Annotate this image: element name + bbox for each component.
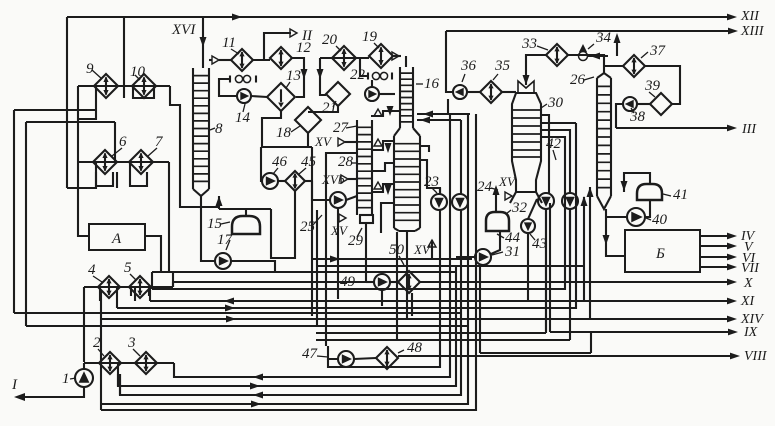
- svg-text:II: II: [301, 28, 313, 44]
- pump 38: [623, 97, 637, 111]
- line IV: [700, 229, 756, 244]
- wire 4-5 line: [84, 286, 173, 288]
- wire 49 suction: [366, 281, 374, 283]
- label 33: [521, 36, 537, 52]
- wire pump36 drop: [447, 99, 449, 114]
- wire 20 left drop: [320, 58, 326, 95]
- svg-text:40: 40: [652, 212, 668, 228]
- svg-text:37: 37: [649, 43, 667, 59]
- arrow 26 bottoms: [603, 235, 610, 245]
- column 28: [357, 120, 372, 215]
- arrow into 30 top: [523, 75, 530, 85]
- wire pocket2 long: [100, 290, 102, 410]
- label 49: [340, 274, 356, 290]
- pump 22: [365, 87, 379, 101]
- svg-text:XVI: XVI: [171, 22, 196, 38]
- wire 36 left: [446, 31, 453, 92]
- wire pocket5 drop: [149, 287, 151, 301]
- label 43: [532, 236, 547, 252]
- wire pump30a up: [541, 115, 549, 193]
- label 22: [350, 67, 366, 83]
- column 28 bottom box: [360, 215, 373, 223]
- wire 2 pocket b: [117, 363, 119, 386]
- heat exchanger 10: [132, 74, 156, 98]
- leader 27: [346, 126, 357, 128]
- wire fan 3: [118, 266, 456, 386]
- svg-text:18: 18: [276, 125, 292, 141]
- wire cooler22 left riser: [360, 58, 368, 76]
- arrow fan5: [251, 401, 261, 408]
- mixer 21: [326, 82, 350, 106]
- pump 1: [75, 369, 93, 387]
- wire col16 bottoms: [406, 231, 408, 257]
- label 24: [477, 179, 493, 195]
- label 46: [272, 154, 288, 170]
- wire XV lower stub: [431, 240, 433, 259]
- wire x584 riser: [583, 197, 585, 301]
- marker XV at 30: [498, 174, 517, 189]
- svg-text:15: 15: [207, 216, 223, 232]
- flow arrow 20 drop: [317, 69, 324, 79]
- block A: [89, 224, 145, 250]
- wire col8 bottoms: [201, 196, 215, 261]
- wire left bus b stub: [114, 122, 116, 162]
- column 16 bottom taper: [394, 228, 420, 231]
- wire bus 266: [317, 265, 584, 267]
- heat exchanger 35: [480, 81, 502, 103]
- wire 43 drop: [527, 233, 529, 301]
- air cooler 22: [368, 72, 392, 79]
- pump 30a: [538, 193, 554, 209]
- svg-text:XV: XV: [330, 223, 349, 238]
- wire 31 to 32: [491, 231, 500, 254]
- heat exchanger 33: [546, 44, 568, 66]
- wire draw 16d: [371, 184, 394, 192]
- svg-text:III: III: [741, 122, 757, 137]
- wire 45 bottom loop: [271, 191, 295, 258]
- wire 5 pocket b: [148, 287, 150, 296]
- svg-text:38: 38: [629, 109, 646, 125]
- wire pump49 drop: [381, 290, 383, 306]
- arrow col16 feed a: [423, 111, 433, 118]
- wire 9-10 main line: [78, 85, 170, 87]
- label 39: [644, 78, 661, 94]
- label 27: [333, 120, 350, 136]
- svg-text:16: 16: [424, 76, 440, 92]
- wire 41 loop: [624, 173, 650, 192]
- arrow 34 riser: [614, 33, 621, 43]
- wire col16 left stub: [381, 203, 394, 233]
- flow arrow 15 riser: [216, 196, 223, 206]
- wire 4-5 right drop: [172, 272, 174, 287]
- svg-text:13: 13: [286, 68, 301, 84]
- wire 11-12: [253, 59, 270, 61]
- leader 33: [537, 46, 548, 50]
- wire pump1 riser: [83, 363, 85, 370]
- wire left vert a: [13, 110, 15, 313]
- leader 8: [210, 128, 215, 130]
- svg-text:39: 39: [644, 78, 661, 94]
- leader 28: [351, 162, 357, 164]
- valve 34: [579, 44, 588, 61]
- wire 6-7 right drop: [168, 162, 170, 272]
- leader 39: [649, 92, 655, 97]
- wire 10 right drop: [170, 86, 219, 207]
- wire 38 to III: [616, 104, 623, 128]
- wire 20-19 line: [320, 57, 369, 59]
- wire 35 to 30: [502, 91, 516, 93]
- wire 45 box right: [311, 147, 313, 316]
- svg-text:A: A: [111, 231, 122, 247]
- marker XV mid: [330, 214, 349, 238]
- wire 36-35: [467, 91, 480, 93]
- wire col29 bottoms: [365, 223, 367, 282]
- marker XV upper: [314, 134, 345, 149]
- svg-text:I: I: [11, 377, 18, 393]
- label 35: [494, 58, 511, 74]
- svg-text:XV: XV: [498, 174, 517, 189]
- leader 44: [497, 234, 504, 238]
- arrow bus XI west: [224, 298, 234, 305]
- heat exchanger 20: [332, 46, 356, 70]
- label 1: [62, 371, 70, 387]
- input arrow I: [14, 393, 25, 401]
- label 47: [302, 346, 319, 362]
- wire pump30b drop: [569, 209, 571, 340]
- label 42: [546, 136, 562, 152]
- wire 49-50: [390, 281, 398, 283]
- pump 36: [453, 85, 467, 99]
- leader 41: [663, 194, 671, 196]
- leader 46: [273, 168, 278, 174]
- svg-text:34: 34: [595, 30, 612, 46]
- wire col16 top riser: [405, 56, 407, 67]
- pump 49: [374, 274, 390, 290]
- svg-text:26: 26: [570, 72, 586, 88]
- label 17: [217, 232, 234, 248]
- wire 45 box left: [261, 147, 262, 181]
- wire fan 5: [101, 114, 468, 404]
- arrow into 34: [590, 53, 600, 60]
- column 8: [193, 68, 209, 196]
- svg-text:IX: IX: [743, 325, 758, 340]
- wire bus 289: [152, 137, 565, 289]
- svg-text:VII: VII: [741, 261, 760, 276]
- svg-text:35: 35: [494, 58, 511, 74]
- mixer 18: [295, 107, 321, 133]
- svg-text:X: X: [743, 276, 753, 291]
- leader 11: [231, 49, 239, 54]
- wire pump30a drop: [545, 209, 547, 333]
- wire 30 skirt to 43: [528, 199, 537, 219]
- heat exchanger 12: [270, 47, 292, 69]
- svg-text:6: 6: [119, 134, 127, 150]
- marker XVb: [321, 172, 348, 187]
- heat exchanger 3: [135, 352, 157, 374]
- label 21: [322, 100, 337, 116]
- line X: [420, 276, 753, 291]
- leader 38: [631, 108, 634, 113]
- label 31: [504, 244, 520, 260]
- wire 12 right drop: [292, 58, 304, 97]
- label 7: [155, 134, 164, 150]
- wire XV 30 line: [495, 193, 497, 212]
- wire 31 left: [456, 256, 475, 258]
- column 16 neck: [400, 67, 413, 128]
- wire cooler left drop: [219, 79, 237, 96]
- arrow bus 259: [330, 256, 340, 263]
- leader 43: [530, 234, 535, 240]
- pump 40: [627, 208, 645, 226]
- svg-text:31: 31: [504, 244, 520, 260]
- wire X corner: [172, 282, 174, 287]
- wire 25 suction: [346, 196, 357, 200]
- label 5: [124, 260, 132, 276]
- heat exchanger 2: [99, 352, 121, 374]
- leader 10: [135, 75, 140, 80]
- leader 7: [148, 148, 157, 156]
- svg-text:28: 28: [338, 154, 354, 170]
- wire 22 to col16: [379, 93, 395, 95]
- wire 26 bottoms: [606, 209, 625, 256]
- svg-text:24: 24: [477, 179, 493, 195]
- wire XVb into 28: [348, 178, 357, 180]
- wire 25 left: [312, 181, 330, 200]
- pump 24: [452, 194, 468, 210]
- label 48: [407, 340, 423, 356]
- wire 7 pocket: [130, 162, 147, 186]
- wire col16 feed a: [417, 113, 470, 115]
- wire left frame outer: [66, 17, 68, 188]
- wire 33 left: [526, 55, 546, 85]
- leader 4: [93, 276, 102, 282]
- svg-text:XI: XI: [740, 294, 756, 309]
- svg-text:XV: XV: [314, 134, 333, 149]
- wire bus 340: [316, 339, 570, 341]
- pump 47: [338, 351, 354, 367]
- leader 45: [299, 168, 306, 174]
- wire 9 bottom stub: [116, 172, 118, 188]
- leader 35: [493, 74, 498, 80]
- label 20: [322, 32, 338, 48]
- line XII with arrow: [67, 9, 760, 24]
- flow arrow 12 drop: [301, 69, 308, 79]
- leader 3: [133, 349, 140, 356]
- svg-text:46: 46: [272, 154, 288, 170]
- label 44: [505, 230, 521, 246]
- heat exchanger 9: [94, 74, 118, 98]
- pump 23: [431, 194, 447, 210]
- label 29: [348, 233, 364, 249]
- steam tri c: [374, 182, 382, 189]
- label II: [301, 28, 313, 44]
- label 15: [207, 216, 223, 232]
- wire fan 6: [101, 114, 476, 410]
- arrow XV 30: [493, 185, 500, 195]
- leader 34: [588, 44, 594, 49]
- label 37: [649, 43, 667, 59]
- arrow draw16d: [385, 185, 392, 195]
- wire 40 left: [606, 216, 627, 218]
- line VIII with arrow: [398, 349, 768, 364]
- svg-text:17: 17: [217, 232, 234, 248]
- wire mid verts b: [326, 153, 357, 346]
- wire 2-3 line: [84, 362, 174, 364]
- wire 15 top feed: [219, 208, 271, 210]
- wire pump31 drop: [479, 265, 481, 353]
- wire fan 4: [120, 210, 461, 395]
- label 45: [301, 154, 317, 170]
- heat exchanger 6: [93, 150, 117, 174]
- svg-text:Б: Б: [655, 246, 665, 262]
- wire 39 to 38: [637, 103, 650, 105]
- svg-text:XIII: XIII: [740, 24, 765, 39]
- wire 30 skirt drop: [549, 203, 551, 332]
- leader 6: [112, 148, 122, 156]
- label 14: [235, 110, 251, 126]
- heat exchanger 5: [129, 276, 151, 298]
- wire II riser: [264, 33, 291, 60]
- wire mid verts e: [406, 257, 408, 318]
- wire 15 riser: [218, 196, 220, 209]
- wire left frame second: [123, 17, 125, 98]
- leader 31: [492, 252, 503, 255]
- arrow fan3: [250, 383, 260, 390]
- furnace 15: [232, 216, 260, 234]
- svg-text:11: 11: [222, 35, 236, 51]
- flow arrow XVI down: [200, 37, 207, 47]
- svg-text:23: 23: [424, 174, 439, 190]
- wire col8 line to 11: [219, 59, 231, 61]
- leader 20: [336, 46, 341, 51]
- svg-text:30: 30: [547, 95, 564, 111]
- wire 18 down to 45 box: [307, 133, 309, 147]
- line XIV: [101, 312, 764, 327]
- wire bus 316: [14, 312, 461, 314]
- heat exchanger 19: [369, 44, 393, 68]
- label 25: [300, 219, 316, 235]
- label 4: [88, 262, 96, 278]
- svg-text:32: 32: [511, 200, 528, 216]
- svg-text:45: 45: [301, 154, 317, 170]
- wire bus 272: [152, 271, 455, 273]
- wire fan 2: [174, 114, 450, 377]
- label 34: [595, 30, 612, 46]
- wire 34 to riser: [588, 55, 608, 57]
- wire 37 loop: [645, 66, 680, 104]
- wire 3 pocket: [119, 374, 121, 395]
- leader 5: [130, 274, 136, 280]
- svg-text:4: 4: [88, 262, 96, 278]
- marker XV lower: [413, 240, 436, 257]
- leader 48: [398, 350, 404, 353]
- wire pump23 riser: [439, 188, 441, 194]
- air cooler after 12: [230, 75, 256, 82]
- vessel 30: [510, 81, 542, 203]
- wire 41 to 40: [645, 200, 650, 217]
- heat exchanger 11: [231, 49, 253, 71]
- label 16: [424, 76, 440, 92]
- label 30: [547, 95, 564, 111]
- label 50: [389, 242, 405, 258]
- line IX: [550, 325, 758, 340]
- leader 19: [374, 43, 379, 48]
- heat exchanger 48: [376, 347, 398, 369]
- label 9: [86, 61, 94, 77]
- wire 17 out: [231, 261, 275, 272]
- leader 22: [362, 75, 366, 76]
- label 36: [460, 58, 477, 74]
- wire 45 box top: [261, 146, 312, 148]
- wire mid verts c: [337, 208, 339, 299]
- wire bus 325: [26, 325, 468, 327]
- valve marker col8 draw: [212, 56, 219, 64]
- wire fan 1: [328, 210, 440, 367]
- wire hx50 drop: [411, 293, 413, 316]
- steam tri b: [374, 139, 382, 146]
- wire bus 259: [312, 258, 472, 260]
- leader 47: [317, 356, 328, 357]
- line VI: [700, 251, 757, 266]
- label 13: [286, 68, 301, 84]
- wire draw 16c: [371, 163, 394, 171]
- wire A right: [145, 236, 161, 272]
- leader 32: [506, 210, 511, 214]
- wire pump30a down: [545, 209, 547, 331]
- leader 37: [641, 52, 648, 58]
- wire col16 feed b: [417, 119, 461, 121]
- wire 6 pocket: [96, 162, 113, 186]
- wire pocket5 drop b: [134, 287, 136, 301]
- leader 2: [98, 349, 104, 356]
- wire 19 to col16: [393, 55, 401, 57]
- arrow x584: [581, 196, 588, 206]
- wire dome15 stub: [245, 209, 247, 216]
- wire 4 pocket: [99, 287, 101, 301]
- wire IX riser: [590, 332, 592, 353]
- heat exchanger 50: [398, 271, 420, 293]
- wire 6-7 main line: [78, 161, 169, 163]
- wire I inlet: [20, 387, 84, 397]
- wire col8 draw to 11: [209, 59, 212, 61]
- furnace 32: [486, 212, 509, 231]
- open arrow II: [290, 29, 297, 37]
- leader 13: [286, 82, 290, 88]
- label I: [11, 377, 18, 393]
- label 3: [127, 335, 136, 351]
- svg-text:1: 1: [62, 371, 70, 387]
- leader 30: [541, 104, 547, 108]
- leader 29: [357, 228, 362, 237]
- leader 36: [462, 74, 465, 82]
- leader 15: [221, 222, 230, 224]
- wire 16 right draw b: [420, 160, 440, 194]
- wire 46-45: [278, 180, 285, 182]
- arrow bus XIV: [226, 316, 236, 323]
- valve marker 19 out: [392, 52, 399, 60]
- column 16 body: [394, 136, 420, 228]
- wire X west: [173, 281, 374, 283]
- label 8: [215, 121, 223, 137]
- wire XVI riser into column 8: [202, 17, 204, 68]
- leader 16: [416, 83, 423, 85]
- arrow draw16a: [387, 106, 394, 116]
- leader 49: [355, 281, 366, 283]
- wire mid verts d: [396, 232, 398, 340]
- wire 26 to 37: [604, 65, 623, 67]
- svg-text:3: 3: [127, 335, 136, 351]
- leader 23: [432, 188, 437, 193]
